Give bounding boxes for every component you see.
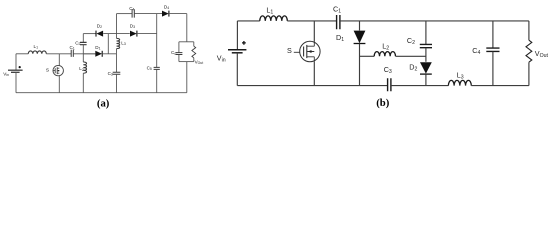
capacitor C1 (a) bbox=[71, 50, 73, 57]
wire: top rail y13.6 (a) bbox=[117, 13, 132, 15]
wire: left vertical (b) bbox=[236, 21, 238, 50]
svg-text:L3: L3 bbox=[457, 71, 464, 81]
wire: vertical link x108.3 (a) bbox=[107, 34, 109, 54]
svg-text:(a): (a) bbox=[97, 97, 110, 109]
svg-text:L1: L1 bbox=[34, 44, 39, 50]
diode D2 (b) vertical pointing down bbox=[420, 62, 432, 73]
svg-text:D1: D1 bbox=[336, 33, 344, 43]
svg-text:D3: D3 bbox=[130, 23, 135, 29]
svg-text:D2: D2 bbox=[97, 23, 102, 29]
svg-text:VOut: VOut bbox=[535, 49, 549, 59]
inductor L2 (a) vertical bbox=[82, 54, 84, 62]
capacitor C4 (b) bbox=[486, 48, 499, 51]
wire: bottom rail (b) right of L3 bbox=[471, 85, 529, 87]
diode D1 (a) bbox=[95, 51, 102, 57]
wire: switch branch (a) bbox=[58, 54, 60, 66]
output block (a): bottom bus bbox=[179, 61, 194, 63]
svg-text:L2: L2 bbox=[79, 66, 84, 72]
wire: bottom rail (b) between C3 and L3 bbox=[391, 85, 448, 87]
mosfet S (a) bbox=[53, 65, 63, 75]
svg-text:S: S bbox=[46, 67, 49, 73]
wire: bottom rail (b) left of C3 bbox=[237, 85, 387, 87]
svg-text:C5: C5 bbox=[147, 65, 152, 71]
svg-text:C1: C1 bbox=[70, 45, 75, 51]
diode D4 (a) points right bbox=[162, 11, 169, 17]
battery V_in (a) bbox=[8, 69, 23, 71]
wire: left vertical (a) bbox=[15, 54, 17, 70]
svg-text:C4: C4 bbox=[472, 46, 480, 56]
svg-text:L2: L2 bbox=[382, 41, 389, 51]
node + dot (a) bbox=[19, 66, 21, 68]
capacitor C1 (b) bbox=[337, 15, 340, 29]
wire: C2 branch vertical (a) bbox=[82, 34, 84, 43]
wire: right edge down (a) bbox=[186, 14, 188, 42]
svg-text:D1: D1 bbox=[95, 45, 100, 51]
diode D2 (a) points left bbox=[96, 31, 103, 37]
svg-text:C2: C2 bbox=[75, 40, 80, 46]
svg-text:D2: D2 bbox=[409, 63, 417, 73]
diode D3 (a) points right bbox=[130, 31, 137, 37]
wire: C4 branch (b) bbox=[492, 21, 494, 48]
capacitor C3 (a) in vertical x117 bbox=[116, 54, 118, 72]
svg-text:C3: C3 bbox=[108, 71, 113, 77]
svg-text:(b): (b) bbox=[376, 97, 390, 109]
capacitor C3 (b) bbox=[388, 78, 391, 91]
wire: rail2 y33.6 (a) bbox=[83, 33, 96, 35]
wire: main rail y53.8 (a) bbox=[16, 53, 28, 55]
output block (a): top bus bbox=[179, 41, 194, 43]
svg-text:Vin: Vin bbox=[3, 71, 9, 77]
inductor L1 (b) bbox=[260, 16, 288, 21]
wire: vertical top link x117 (a) bbox=[116, 14, 118, 34]
wire: C2/D2 branch x425.9 (b) bbox=[425, 21, 427, 44]
svg-text:C3: C3 bbox=[384, 65, 392, 75]
wire: top rail (b) bbox=[237, 20, 259, 22]
inductor L3 (b) bbox=[448, 80, 471, 85]
capacitor C4 (a) bbox=[132, 9, 134, 17]
svg-text:VOut: VOut bbox=[195, 59, 204, 65]
capacitor C2 (a) bbox=[80, 42, 87, 44]
svg-text:L3: L3 bbox=[121, 40, 126, 46]
mosfet S (b) bbox=[313, 21, 315, 42]
wire bbox=[46, 53, 71, 55]
wire: bottom rail (a) bbox=[16, 92, 187, 94]
wire: right edge (b) bbox=[528, 21, 530, 40]
capacitor C5 (a) bbox=[154, 67, 160, 69]
inductor L3 (a) vertical bbox=[116, 34, 118, 39]
diode D1 (b) vertical pointing down bbox=[359, 21, 361, 31]
svg-text:S: S bbox=[287, 46, 292, 55]
svg-text:C1: C1 bbox=[333, 5, 341, 15]
svg-text:Vin: Vin bbox=[217, 53, 226, 63]
inductor L1 (a) bbox=[28, 51, 46, 54]
capacitor C0 (a) bbox=[178, 42, 180, 53]
inductor L2 (b) bbox=[360, 55, 375, 57]
wire: C5 branch x157.8 (a) bbox=[156, 14, 158, 68]
svg-text:D4: D4 bbox=[164, 4, 169, 10]
svg-text:C0: C0 bbox=[171, 50, 176, 56]
resistor load (b) zigzag bbox=[526, 40, 532, 62]
wire bbox=[74, 53, 96, 55]
plus sign (b) bbox=[242, 41, 246, 45]
battery V_in (b) bbox=[228, 49, 246, 51]
svg-text:C2: C2 bbox=[407, 36, 415, 46]
svg-text:L1: L1 bbox=[266, 6, 273, 16]
svg-text:C4: C4 bbox=[129, 6, 134, 12]
capacitor C2 (b) bbox=[420, 44, 432, 47]
resistor load (a) zigzag bbox=[193, 42, 195, 46]
